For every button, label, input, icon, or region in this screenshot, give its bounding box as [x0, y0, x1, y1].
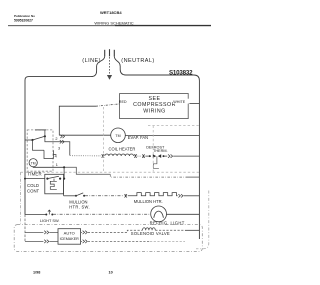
timer contact 2 — [44, 135, 46, 137]
wire mullion to neutral — [184, 195, 200, 197]
wire therm to neutral — [173, 155, 199, 157]
svg-text:4: 4 — [55, 155, 57, 159]
svg-text:WRT18CB4: WRT18CB4 — [100, 10, 122, 15]
wire compressor to neutral — [188, 103, 199, 105]
wire line to cold control — [25, 178, 45, 180]
svg-text:WIRING SCHEMATIC: WIRING SCHEMATIC — [94, 20, 133, 25]
cold control contact left — [46, 178, 48, 180]
svg-text:MULLION HTR.: MULLION HTR. — [134, 199, 163, 204]
wire line bus (left) — [25, 56, 105, 214]
cold control bellows — [50, 179, 57, 190]
wire light row — [25, 214, 46, 216]
timer contact 2 link — [45, 130, 70, 155]
connector chevron mullion right — [178, 194, 183, 197]
wire solenoid to neutral — [155, 229, 185, 231]
connector chevron icemaker top right — [83, 231, 88, 234]
junction dot T1 — [63, 166, 65, 168]
wire switch to lamp — [53, 213, 151, 215]
refrigerator lamp — [151, 206, 167, 222]
defrost timer box — [27, 130, 53, 171]
defrost thermostat hook — [153, 156, 159, 168]
header publication number — [14, 14, 35, 23]
svg-text:2: 2 — [55, 137, 57, 141]
svg-text:COLD: COLD — [27, 183, 39, 188]
wire compressor feed dash-dot — [96, 104, 120, 106]
coil heater element — [105, 154, 134, 156]
junction dot cold control out — [63, 178, 65, 180]
wire mullion switch row — [64, 195, 76, 197]
wire icemaker bottom row — [25, 240, 43, 242]
connector chevron therm right — [168, 154, 173, 157]
wire cold control down — [63, 179, 65, 196]
connector chevron icemaker top left — [44, 231, 49, 234]
svg-text:SOLENOID VALVE: SOLENOID VALVE — [131, 231, 170, 236]
wire fan to neutral — [125, 135, 199, 137]
svg-text:AUTO: AUTO — [64, 231, 75, 236]
svg-text:10: 10 — [109, 271, 113, 275]
wire switch to heater — [85, 195, 124, 197]
defrost thermostat — [145, 155, 149, 157]
svg-text:S103832: S103832 — [169, 70, 193, 77]
cold control contact right — [59, 178, 61, 180]
plug prongs — [105, 49, 115, 56]
timer motor TM — [29, 159, 37, 167]
enclosure dashed freezer top — [148, 125, 199, 127]
wire neutral bus (right) — [114, 56, 199, 239]
mullion switch — [75, 195, 77, 197]
left bus lower — [24, 215, 26, 242]
cold control box — [45, 174, 64, 194]
timer switch blade — [33, 136, 45, 140]
evap fan motor — [111, 128, 126, 143]
enclosure dashed freezer divider — [152, 126, 154, 172]
label WHITE — [173, 99, 190, 104]
light switch — [45, 214, 47, 216]
compressor box — [120, 94, 189, 119]
header rule — [8, 25, 211, 27]
wire evap fan row left — [59, 134, 110, 136]
wire to solenoid valve — [88, 230, 143, 232]
wire icemaker bottom right — [81, 240, 82, 242]
timer box top dark segment — [35, 129, 46, 131]
svg-text:(NEUTRAL): (NEUTRAL) — [121, 58, 154, 64]
enclosure food compartment box — [14, 225, 202, 252]
svg-text:COMPRESSOR: COMPRESSOR — [133, 102, 176, 108]
enclosure dashed freezer bottom — [21, 171, 200, 173]
connector chevron therm left — [142, 154, 145, 157]
timer pivot stem — [33, 140, 57, 159]
svg-text:5995320627: 5995320627 — [14, 18, 33, 22]
connector chevron icemaker bottom right — [83, 240, 88, 243]
connector chevron on T3 row — [60, 140, 64, 143]
enclosure door dash right — [196, 191, 209, 249]
enclosure dashed freezer left — [102, 107, 104, 172]
solenoid valve coil — [143, 228, 156, 231]
svg-text:SEE: SEE — [149, 96, 161, 102]
wire timer motor to neutral — [64, 167, 110, 174]
svg-text:THERM.: THERM. — [153, 149, 168, 153]
svg-text:TM: TM — [115, 134, 120, 138]
wire lamp to neutral — [167, 213, 200, 215]
connector chevron icemaker bottom left — [44, 240, 49, 243]
timer motor lead — [33, 166, 64, 169]
svg-text:COIL HEATER: COIL HEATER — [109, 147, 136, 152]
wire icemaker top row — [25, 231, 43, 233]
connector chevron heater left — [102, 154, 105, 157]
wire to defrost thermostat — [137, 155, 141, 157]
junction dot on line bus — [24, 178, 26, 180]
wire coil heater row dotted — [70, 155, 101, 157]
cold control blade — [47, 176, 59, 178]
ground arrow — [107, 75, 112, 80]
connector chevron mullion left — [124, 194, 127, 197]
svg-text:ICEMAKER: ICEMAKER — [60, 237, 80, 241]
svg-text:HTR. SW.: HTR. SW. — [69, 205, 90, 210]
connector chevron on fan row — [60, 135, 64, 138]
svg-text:LIGHT SW.: LIGHT SW. — [40, 218, 60, 223]
compressor box text — [133, 96, 176, 115]
wire line to timer pivot — [25, 139, 33, 141]
svg-text:CONT: CONT — [27, 189, 40, 194]
svg-text:1: 1 — [56, 163, 58, 167]
auto icemaker box — [58, 229, 81, 245]
svg-text:3: 3 — [58, 146, 60, 150]
svg-text:RED: RED — [119, 100, 127, 104]
timer pivot contact — [31, 139, 33, 141]
svg-text:EVAP. FAN: EVAP. FAN — [128, 135, 148, 140]
svg-text:WHITE: WHITE — [173, 100, 185, 104]
connector chevron heater right — [134, 154, 137, 157]
mullion heater element — [128, 193, 178, 196]
svg-text:1/98: 1/98 — [33, 271, 40, 275]
wire compressor feed riser — [59, 106, 96, 135]
svg-text:Publication No: Publication No — [14, 14, 35, 18]
ground lead — [109, 57, 111, 75]
svg-text:TM: TM — [31, 161, 36, 165]
wire icemaker top right — [81, 231, 82, 233]
svg-text:WIRING: WIRING — [143, 108, 165, 114]
cold control riser — [63, 167, 65, 178]
enclosure dash-dot left — [20, 172, 22, 224]
